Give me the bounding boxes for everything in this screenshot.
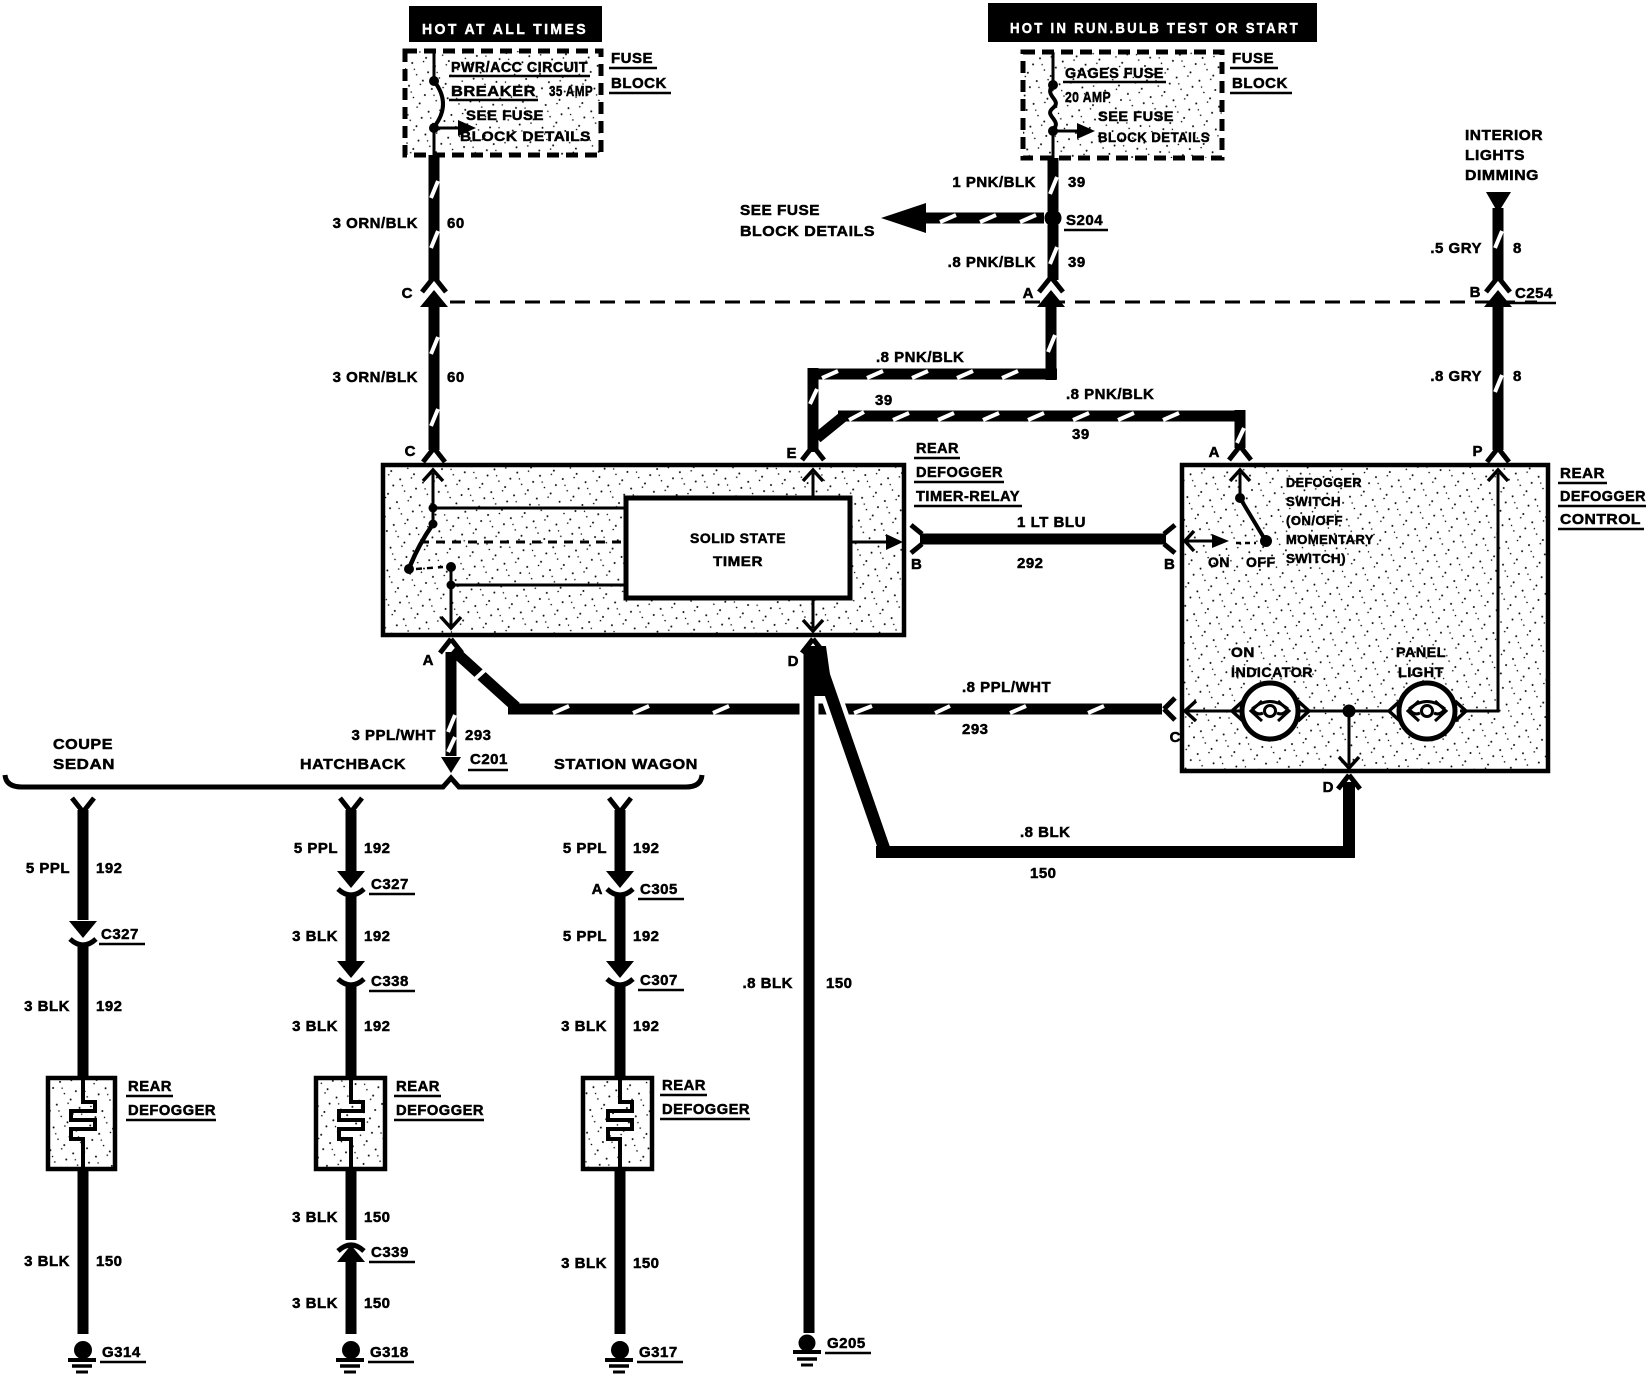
svg-text:SOLID STATE: SOLID STATE: [690, 530, 786, 546]
svg-text:C338: C338: [371, 973, 409, 990]
svg-text:5 PPL: 5 PPL: [563, 928, 607, 945]
svg-text:.8 GRY: .8 GRY: [1430, 368, 1482, 385]
connector A C305: [592, 871, 684, 899]
svg-text:.8 PNK/BLK: .8 PNK/BLK: [948, 254, 1036, 271]
svg-text:192: 192: [364, 840, 391, 857]
svg-text:192: 192: [633, 840, 660, 857]
wire 3 BLK 150 (hatchback upper): [292, 1169, 390, 1240]
wire 3 BLK 192 (hatchback lower): [292, 986, 390, 1078]
svg-text:GAGES FUSE: GAGES FUSE: [1065, 65, 1164, 82]
ground G205: [793, 1335, 871, 1366]
relay armature (movable contact): [404, 520, 438, 575]
svg-text:150: 150: [96, 1253, 123, 1270]
arrow SEE FUSE BLOCK DETAILS (to left of S204): [740, 202, 1044, 240]
circuit breaker PWR/ACC 35 AMP: [429, 53, 593, 155]
svg-text:1 PNK/BLK: 1 PNK/BLK: [952, 174, 1036, 191]
svg-text:D: D: [1323, 779, 1334, 796]
body style brace: [5, 775, 702, 787]
splice S204: [1045, 210, 1109, 231]
svg-text:3 BLK: 3 BLK: [561, 1255, 607, 1272]
ground G317: [605, 1341, 683, 1372]
wire 3 PPL/WHT 293 to C201: [351, 652, 491, 756]
dashed link armature to fixed contact: [416, 567, 443, 569]
svg-text:192: 192: [633, 1018, 660, 1035]
timer internal line from E: [803, 470, 823, 498]
label FUSE BLOCK (left): [609, 50, 671, 93]
svg-text:BLOCK DETAILS: BLOCK DETAILS: [460, 128, 591, 144]
wire 3 ORN/BLK 60 upper: [333, 155, 465, 280]
svg-text:G314: G314: [102, 1344, 141, 1361]
label REAR DEFOGGER CONTROL: [1558, 465, 1646, 529]
svg-text:3 BLK: 3 BLK: [292, 928, 338, 945]
connector C327 (hatchback): [337, 871, 415, 895]
wire .8 PNK/BLK 39 to terminal E: [808, 300, 1057, 452]
defogger switch common from A: [1230, 470, 1250, 503]
svg-text:BLOCK DETAILS: BLOCK DETAILS: [740, 223, 875, 240]
svg-text:A: A: [1023, 285, 1034, 302]
wire .8 BLK 150 from timer D to ground G205 (white casing): [742, 652, 852, 1333]
svg-text:FUSE: FUSE: [611, 50, 653, 67]
svg-text:293: 293: [465, 727, 492, 744]
terminal D of timer-relay: [788, 639, 824, 670]
svg-text:292: 292: [1017, 555, 1044, 572]
label HATCHBACK: [300, 756, 406, 773]
fuse block left (dashed box): [405, 51, 601, 155]
svg-text:39: 39: [875, 392, 893, 409]
svg-text:3 BLK: 3 BLK: [292, 1295, 338, 1312]
svg-text:(ON/OFF: (ON/OFF: [1286, 513, 1343, 528]
svg-text:B: B: [1470, 284, 1481, 301]
svg-text:5 PPL: 5 PPL: [563, 840, 607, 857]
svg-text:G318: G318: [370, 1344, 409, 1361]
svg-text:.8 PNK/BLK: .8 PNK/BLK: [876, 349, 964, 366]
svg-text:1 LT BLU: 1 LT BLU: [1017, 514, 1086, 531]
svg-text:150: 150: [364, 1295, 391, 1312]
svg-text:B: B: [1164, 556, 1175, 573]
svg-text:C339: C339: [371, 1244, 409, 1261]
svg-text:DEFOGGER: DEFOGGER: [1560, 488, 1646, 505]
svg-text:8: 8: [1513, 368, 1522, 385]
svg-text:192: 192: [96, 998, 123, 1015]
connector C338: [337, 961, 415, 991]
rear defogger element (coupe): [48, 1078, 115, 1169]
svg-text:D: D: [788, 653, 799, 670]
terminal C of defogger switch: [1164, 698, 1181, 746]
svg-text:S204: S204: [1066, 212, 1103, 229]
svg-text:C327: C327: [371, 876, 409, 893]
svg-text:DEFOGGER: DEFOGGER: [1286, 475, 1362, 490]
INTERIOR LIGHTS DIMMING off-page arrow: [1465, 127, 1543, 213]
wire 5 PPL 192 (wagon upper): [563, 810, 660, 871]
svg-text:ON: ON: [1231, 644, 1255, 660]
svg-text:REAR: REAR: [916, 440, 959, 457]
svg-text:5 PPL: 5 PPL: [294, 840, 338, 857]
svg-text:192: 192: [364, 1018, 391, 1035]
svg-text:E: E: [786, 445, 797, 462]
terminal A of timer-relay: [423, 639, 462, 669]
svg-text:PWR/ACC CIRCUIT: PWR/ACC CIRCUIT: [451, 59, 588, 76]
svg-text:REAR: REAR: [128, 1078, 172, 1095]
svg-text:3 BLK: 3 BLK: [292, 1018, 338, 1035]
wire 3 BLK 192 (hatchback upper): [292, 896, 390, 961]
wire 1 PNK/BLK 39: [952, 158, 1085, 211]
hatchback branch flare: [340, 798, 362, 812]
svg-text:P: P: [1472, 443, 1483, 460]
svg-text:OFF: OFF: [1246, 554, 1276, 570]
svg-text:192: 192: [364, 928, 391, 945]
svg-text:STATION WAGON: STATION WAGON: [554, 756, 698, 773]
rear defogger element (wagon): [583, 1078, 652, 1169]
switch arm to OFF contact: [1240, 498, 1272, 547]
svg-text:SEDAN: SEDAN: [53, 756, 115, 773]
relay actuating dashed link to timer: [420, 541, 626, 544]
wire 3 BLK 150 (wagon): [561, 1169, 659, 1334]
svg-text:.8 BLK: .8 BLK: [742, 975, 793, 992]
svg-text:G317: G317: [639, 1344, 678, 1361]
svg-text:150: 150: [364, 1209, 391, 1226]
wire 5 PPL 192 (coupe): [26, 810, 123, 920]
svg-text:INTERIOR: INTERIOR: [1465, 127, 1543, 144]
label FUSE BLOCK (right): [1230, 50, 1292, 93]
wire 5 PPL 192 (wagon lower): [563, 896, 660, 961]
svg-text:60: 60: [447, 215, 465, 232]
svg-text:SEE FUSE: SEE FUSE: [740, 202, 820, 219]
connector A (bulkhead): [1023, 277, 1065, 307]
wire junction at timer terminal D: [802, 639, 833, 696]
timer output line to B: [850, 534, 903, 550]
svg-text:20 AMP: 20 AMP: [1065, 89, 1111, 106]
panel light bulb: [1389, 644, 1466, 739]
lamp line bulb to junction: [1298, 701, 1390, 721]
terminal D of defogger switch: [1323, 775, 1360, 796]
wire 3 BLK 192 (coupe): [24, 946, 122, 1078]
svg-text:.5 GRY: .5 GRY: [1430, 240, 1482, 257]
svg-text:BLOCK: BLOCK: [1232, 75, 1288, 92]
svg-text:SEE FUSE: SEE FUSE: [1098, 108, 1174, 124]
svg-text:39: 39: [1072, 426, 1090, 443]
dashed bulkhead connector line: [450, 301, 1537, 304]
connector C307: [606, 961, 684, 990]
svg-text:SWITCH: SWITCH: [1286, 494, 1341, 509]
svg-text:A: A: [423, 652, 434, 669]
svg-text:192: 192: [96, 860, 123, 877]
wire 3 BLK 150 (coupe): [24, 1169, 122, 1334]
svg-text:INDICATOR: INDICATOR: [1231, 664, 1313, 680]
svg-text:39: 39: [1068, 174, 1086, 191]
svg-text:C201: C201: [470, 751, 508, 768]
svg-text:MOMENTARY: MOMENTARY: [1286, 532, 1374, 547]
switch B contact line with arrow (ON position): [1184, 531, 1276, 570]
svg-text:C254: C254: [1515, 285, 1553, 302]
svg-text:HATCHBACK: HATCHBACK: [300, 756, 406, 773]
svg-text:A: A: [592, 881, 603, 898]
terminal C of timer-relay: [405, 443, 445, 462]
coupe/sedan branch flare: [72, 798, 94, 812]
svg-text:REAR: REAR: [396, 1078, 440, 1095]
wire .8 BLK 150 from timer D to switch D (white casing): [816, 652, 1355, 882]
fuse block right (dashed box): [1023, 52, 1222, 158]
svg-text:B: B: [911, 556, 922, 573]
wire .8 PNK/BLK 39 branch to switch terminal A: [817, 386, 1245, 448]
rear defogger timer-relay box: [383, 465, 904, 635]
connector C327 (coupe): [69, 921, 145, 945]
connector C (bulkhead): [402, 277, 448, 307]
svg-text:SWITCH): SWITCH): [1286, 551, 1346, 566]
wire 3 BLK 150 (hatchback lower): [292, 1258, 390, 1334]
label COUPE SEDAN: [53, 736, 115, 773]
label REAR DEFOGGER (coupe): [126, 1078, 216, 1120]
wire 3 BLK 192 (wagon): [561, 986, 659, 1078]
wire .8 GRY 8: [1430, 300, 1521, 450]
svg-text:192: 192: [633, 928, 660, 945]
banner HOT IN RUN.BULB TEST OR START: [988, 3, 1317, 42]
internal line junction to D terminal: [1339, 717, 1359, 768]
svg-text:150: 150: [1030, 865, 1057, 882]
svg-text:COUPE: COUPE: [53, 736, 113, 753]
svg-text:HOT AT ALL TIMES: HOT AT ALL TIMES: [422, 21, 588, 38]
svg-text:3 ORN/BLK: 3 ORN/BLK: [333, 369, 418, 386]
svg-text:FUSE: FUSE: [1232, 50, 1274, 67]
banner HOT AT ALL TIMES: [409, 6, 602, 42]
relay fixed contact to terminal A and timer sense: [441, 562, 626, 628]
svg-text:TIMER: TIMER: [713, 553, 763, 569]
svg-text:3 ORN/BLK: 3 ORN/BLK: [333, 215, 418, 232]
terminal E of timer-relay: [786, 445, 824, 462]
solid state timer box: [626, 498, 850, 598]
ON indicator bulb: [1231, 644, 1313, 739]
svg-text:C: C: [405, 443, 416, 460]
timer internal line to D: [803, 598, 823, 631]
svg-text:5 PPL: 5 PPL: [26, 860, 70, 877]
wire 1 LT BLU 292: [911, 514, 1175, 573]
label REAR DEFOGGER TIMER-RELAY: [914, 440, 1022, 506]
wire .8 PNK/BLK 39 (above bulkhead): [948, 225, 1086, 280]
ground G318: [336, 1341, 414, 1372]
svg-text:DEFOGGER: DEFOGGER: [128, 1102, 216, 1119]
label REAR DEFOGGER (wagon): [660, 1077, 750, 1119]
junction node D: [1343, 705, 1356, 718]
svg-text:HOT IN RUN.BULB TEST OR START: HOT IN RUN.BULB TEST OR START: [1010, 20, 1300, 37]
lamp feed line from C terminal: [1184, 701, 1243, 721]
svg-text:REAR: REAR: [662, 1077, 706, 1094]
svg-text:39: 39: [1068, 254, 1086, 271]
svg-text:.8 BLK: .8 BLK: [1020, 824, 1071, 841]
svg-text:3 BLK: 3 BLK: [561, 1018, 607, 1035]
wire 5 PPL 192 (hatchback): [294, 810, 391, 871]
connector B C254: [1470, 277, 1556, 307]
svg-text:C327: C327: [101, 926, 139, 943]
svg-text:.8 PPL/WHT: .8 PPL/WHT: [962, 679, 1051, 696]
svg-text:C305: C305: [640, 881, 678, 898]
connector C339: [337, 1244, 415, 1262]
svg-text:C: C: [1170, 729, 1181, 746]
svg-text:3 PPL/WHT: 3 PPL/WHT: [351, 727, 436, 744]
svg-text:PANEL: PANEL: [1396, 644, 1446, 660]
svg-text:DEFOGGER: DEFOGGER: [916, 464, 1003, 481]
station wagon branch flare: [609, 798, 631, 812]
svg-text:293: 293: [962, 721, 989, 738]
svg-text:3 BLK: 3 BLK: [292, 1209, 338, 1226]
svg-text:DEFOGGER: DEFOGGER: [396, 1102, 484, 1119]
svg-text:3 BLK: 3 BLK: [24, 998, 70, 1015]
label STATION WAGON: [554, 756, 698, 773]
svg-text:BLOCK DETAILS: BLOCK DETAILS: [1098, 129, 1210, 145]
label DEFOGGER SWITCH (ON/OFF MOMENTARY SWITCH): [1286, 475, 1374, 566]
svg-text:TIMER-RELAY: TIMER-RELAY: [916, 488, 1020, 505]
svg-text:8: 8: [1513, 240, 1522, 257]
svg-text:DIMMING: DIMMING: [1465, 167, 1539, 184]
svg-text:SEE FUSE: SEE FUSE: [466, 107, 544, 123]
svg-text:CONTROL: CONTROL: [1560, 511, 1641, 528]
svg-text:REAR: REAR: [1560, 465, 1605, 482]
svg-text:150: 150: [633, 1255, 660, 1272]
svg-text:3 BLK: 3 BLK: [24, 1253, 70, 1270]
svg-text:ON: ON: [1208, 554, 1230, 570]
svg-text:DEFOGGER: DEFOGGER: [662, 1101, 750, 1118]
terminal A of defogger switch: [1209, 444, 1251, 461]
svg-text:C: C: [402, 285, 413, 302]
fuse GAGES 20 AMP: [1048, 54, 1210, 158]
wire 3 ORN/BLK 60 lower: [333, 300, 465, 450]
rear defogger element (hatchback): [316, 1078, 385, 1169]
connector C201: [441, 737, 508, 773]
svg-text:.8 PNK/BLK: .8 PNK/BLK: [1066, 386, 1154, 403]
relay contact feed from C: [423, 470, 626, 524]
internal line from P to panel light: [1460, 470, 1508, 711]
label REAR DEFOGGER (hatchback): [394, 1078, 484, 1120]
svg-text:BLOCK: BLOCK: [611, 75, 667, 92]
ground G314: [68, 1341, 146, 1372]
wire .5 GRY 8: [1430, 208, 1521, 280]
svg-text:A: A: [1209, 444, 1220, 461]
svg-text:150: 150: [826, 975, 853, 992]
svg-text:G205: G205: [827, 1335, 866, 1352]
wire .8 PPL/WHT 293 to switch terminal C: [453, 650, 1162, 738]
svg-text:BREAKER: BREAKER: [451, 83, 536, 100]
rear defogger control (switch) box: [1182, 465, 1548, 771]
svg-text:35 AMP: 35 AMP: [549, 83, 593, 100]
svg-text:LIGHTS: LIGHTS: [1465, 147, 1525, 164]
terminal P of defogger switch: [1472, 443, 1509, 462]
svg-text:C307: C307: [640, 972, 678, 989]
svg-text:60: 60: [447, 369, 465, 386]
svg-text:LIGHT: LIGHT: [1398, 664, 1444, 680]
